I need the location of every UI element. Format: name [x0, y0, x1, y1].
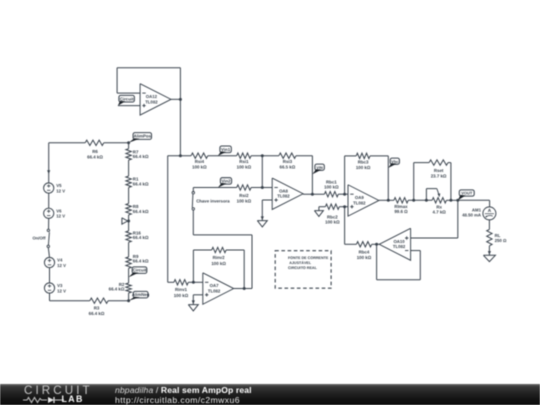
svg-text:Rsi1: Rsi1 — [239, 159, 249, 164]
svg-text:AlimPos: AlimPos — [134, 134, 152, 139]
svg-text:R3: R3 — [94, 305, 100, 310]
svg-text:Circuit: Circuit — [120, 96, 134, 101]
svg-text:OA12: OA12 — [146, 94, 158, 99]
svg-text:12 V: 12 V — [56, 214, 65, 219]
svg-text:48.50 mA: 48.50 mA — [462, 213, 481, 218]
svg-text:100 kΩ: 100 kΩ — [192, 165, 207, 170]
svg-text:OA7: OA7 — [210, 283, 219, 288]
svg-text:Vin1: Vin1 — [221, 147, 231, 152]
svg-text:100 kΩ: 100 kΩ — [324, 184, 339, 189]
svg-text:66.4 kΩ: 66.4 kΩ — [109, 287, 125, 292]
svg-text:AlimNeg: AlimNeg — [132, 292, 150, 297]
svg-text:TL082: TL082 — [145, 99, 158, 104]
svg-text:Rinv2: Rinv2 — [213, 255, 226, 260]
svg-text:Chave inversora: Chave inversora — [196, 198, 230, 203]
svg-text:100 kΩ: 100 kΩ — [237, 165, 252, 170]
svg-text:100 kΩ: 100 kΩ — [237, 199, 252, 204]
svg-text:Rsi4: Rsi4 — [195, 159, 205, 164]
svg-text:66.5 kΩ: 66.5 kΩ — [280, 165, 296, 170]
svg-text:AJUSTÁVEL: AJUSTÁVEL — [289, 260, 312, 265]
svg-text:12 V: 12 V — [57, 288, 66, 293]
svg-text:Rinv1: Rinv1 — [175, 287, 188, 292]
svg-text:Vin2: Vin2 — [221, 178, 231, 183]
svg-text:OA8: OA8 — [279, 188, 288, 193]
svg-text:R6: R6 — [92, 149, 98, 154]
svg-text:Circuit: Circuit — [133, 268, 147, 273]
svg-text:23.7 kΩ: 23.7 kΩ — [431, 174, 447, 179]
svg-text:VOUT: VOUT — [461, 191, 473, 196]
svg-text:TL082: TL082 — [277, 194, 290, 199]
svg-text:66.4 kΩ: 66.4 kΩ — [133, 235, 149, 240]
svg-text:Rbc3: Rbc3 — [358, 160, 369, 165]
svg-text:66.4 kΩ: 66.4 kΩ — [133, 259, 149, 264]
svg-text:TL082: TL082 — [208, 288, 221, 293]
svg-text:66.4 kΩ: 66.4 kΩ — [89, 311, 105, 316]
svg-text:100 kΩ: 100 kΩ — [357, 255, 372, 260]
svg-text:FONTE DE CORRENTE: FONTE DE CORRENTE — [288, 256, 329, 260]
svg-text:CIRCUITO REAL: CIRCUITO REAL — [288, 266, 318, 270]
svg-text:99.6 Ω: 99.6 Ω — [394, 209, 408, 214]
svg-text:Vbc: Vbc — [391, 159, 399, 164]
svg-text:100 kΩ: 100 kΩ — [325, 220, 340, 225]
svg-text:100 kΩ: 100 kΩ — [174, 293, 189, 298]
svg-text:66.4 kΩ: 66.4 kΩ — [87, 155, 103, 160]
svg-text:Rbc4: Rbc4 — [359, 249, 370, 254]
svg-text:A: A — [488, 208, 492, 213]
svg-text:66.4 kΩ: 66.4 kΩ — [133, 154, 149, 159]
svg-text:66.4 kΩ: 66.4 kΩ — [133, 181, 149, 186]
svg-text:12 V: 12 V — [56, 188, 65, 193]
svg-text:VIN: VIN — [316, 165, 323, 170]
svg-text:66.4 kΩ: 66.4 kΩ — [133, 209, 149, 214]
svg-text:On/Off: On/Off — [32, 235, 46, 240]
svg-text:4.7 kΩ: 4.7 kΩ — [433, 209, 447, 214]
svg-text:12 V: 12 V — [57, 263, 66, 268]
svg-text:OA10: OA10 — [393, 239, 405, 244]
svg-text:TL082: TL082 — [393, 244, 406, 249]
svg-text:100 kΩ: 100 kΩ — [356, 165, 371, 170]
svg-text:OA9: OA9 — [355, 195, 364, 200]
svg-text:Rset: Rset — [434, 168, 444, 173]
svg-text:100 kΩ: 100 kΩ — [211, 261, 226, 266]
svg-text:TL082: TL082 — [353, 200, 366, 205]
svg-text:Rsi3: Rsi3 — [283, 159, 293, 164]
svg-text:Rsi2: Rsi2 — [239, 193, 249, 198]
svg-text:250 Ω: 250 Ω — [495, 238, 507, 243]
